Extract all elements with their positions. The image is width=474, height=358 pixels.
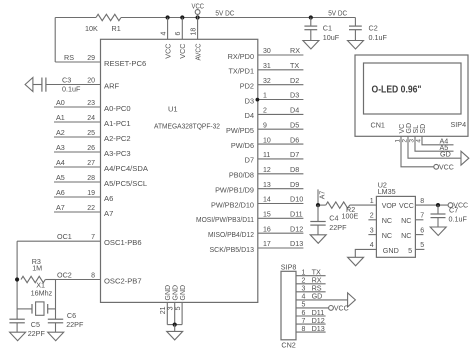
svg-text:3: 3 — [370, 227, 374, 234]
wire C3 to ground — [33, 84, 42, 86]
wire pin 17 net D13 — [258, 247, 304, 249]
svg-text:12: 12 — [263, 167, 271, 174]
wire pin 9 net D5 — [258, 128, 304, 130]
wire pin 28 A5/PC5/SCL — [54, 181, 101, 183]
wire pin 7 stub — [415, 219, 423, 221]
power VCC at OLED — [434, 164, 439, 169]
capacitor C7 — [431, 213, 446, 215]
wire rail to C2 — [354, 18, 356, 27]
svg-text:GD: GD — [440, 149, 451, 158]
svg-text:D6: D6 — [290, 135, 299, 144]
wire pin 7 net D12 — [296, 323, 326, 325]
svg-text:GND: GND — [165, 285, 172, 301]
svg-text:CN1: CN1 — [371, 120, 385, 129]
resistor R2 — [326, 202, 350, 208]
svg-text:16Mhz: 16Mhz — [31, 289, 53, 298]
svg-text:OC2: OC2 — [57, 270, 72, 279]
svg-text:RX: RX — [290, 46, 300, 55]
wire pin 3 net RS — [296, 291, 326, 293]
resistor R3 — [21, 276, 45, 282]
svg-text:VCC: VCC — [163, 44, 172, 59]
svg-text:ATMEGA328TQPF-32: ATMEGA328TQPF-32 — [154, 122, 220, 131]
svg-text:VCC: VCC — [399, 203, 414, 210]
svg-text:GND: GND — [180, 285, 187, 301]
svg-text:19: 19 — [87, 190, 95, 197]
svg-text:3: 3 — [168, 306, 175, 310]
svg-text:SCK/PB5/D13: SCK/PB5/D13 — [210, 245, 255, 254]
svg-text:O-LED 0.96": O-LED 0.96" — [372, 85, 422, 96]
svg-text:A1-PC1: A1-PC1 — [104, 119, 131, 128]
svg-text:LM35: LM35 — [378, 187, 396, 196]
svg-text:RX/PD0: RX/PD0 — [228, 52, 254, 61]
svg-text:D3: D3 — [290, 91, 299, 100]
svg-text:U1: U1 — [168, 105, 178, 114]
svg-text:D7: D7 — [245, 156, 254, 165]
wire A7 drop — [317, 189, 319, 205]
svg-text:4: 4 — [160, 32, 167, 36]
svg-text:A5/PC5/SCL: A5/PC5/SCL — [104, 179, 147, 188]
OLED screen inner box — [364, 63, 462, 114]
svg-text:10uF: 10uF — [323, 33, 340, 42]
ground (C2) — [348, 41, 364, 50]
svg-text:A3-PC3: A3-PC3 — [104, 149, 131, 158]
svg-text:16: 16 — [263, 226, 271, 233]
wire pin 4 to ground — [296, 299, 348, 301]
svg-text:CN2: CN2 — [281, 340, 295, 349]
wire pin 32 net D2 — [258, 84, 304, 86]
svg-text:7: 7 — [420, 213, 424, 220]
wire RESET pull-up vertical — [54, 18, 56, 63]
wire C6 to ground — [55, 323, 57, 332]
wire pin 13 net D9 — [258, 188, 304, 190]
svg-text:21: 21 — [160, 306, 167, 314]
svg-text:A6: A6 — [104, 194, 113, 203]
wire 5V DC rail — [121, 17, 355, 19]
wire GND pin 21 — [166, 302, 168, 324]
svg-text:5V DC: 5V DC — [215, 9, 234, 18]
svg-text:31: 31 — [263, 63, 271, 70]
svg-text:OSC2-PB7: OSC2-PB7 — [104, 276, 142, 285]
wire C7 to ground — [437, 218, 439, 227]
svg-text:D12: D12 — [290, 224, 303, 233]
svg-text:GND: GND — [173, 285, 180, 301]
svg-text:3: 3 — [302, 286, 306, 293]
wire OSC2 — [56, 279, 101, 281]
svg-text:9: 9 — [263, 122, 267, 129]
wire to crystal right — [48, 308, 56, 310]
wire pin 2 net D4 — [258, 113, 304, 115]
svg-text:17: 17 — [263, 241, 271, 248]
svg-text:22: 22 — [87, 205, 95, 212]
wire pin 3 stub — [368, 234, 376, 236]
svg-text:D3: D3 — [245, 96, 254, 105]
svg-text:A7: A7 — [104, 209, 113, 218]
wire pin 5 to VCC — [296, 307, 329, 309]
svg-text:2: 2 — [263, 108, 267, 115]
svg-text:TX: TX — [290, 61, 299, 70]
ground (right) OLED — [461, 151, 469, 165]
ground (C1) — [303, 41, 319, 50]
svg-text:1: 1 — [263, 93, 267, 100]
capacitor C4 — [310, 221, 325, 223]
svg-text:VCC: VCC — [334, 305, 349, 312]
svg-text:A0: A0 — [56, 98, 65, 107]
ground (C7) — [430, 227, 446, 236]
wire SD to A4 — [422, 136, 454, 145]
svg-text:8: 8 — [91, 272, 95, 279]
svg-text:2: 2 — [302, 278, 306, 285]
ground (right) CN2 — [348, 293, 356, 307]
svg-text:NC: NC — [401, 231, 411, 240]
wire pin 29 RESET-PC6 — [55, 61, 100, 63]
capacitor C6 — [48, 318, 63, 320]
svg-text:A2: A2 — [56, 128, 65, 137]
wire VC to VCC — [401, 136, 434, 167]
svg-text:0.1uF: 0.1uF — [449, 214, 468, 223]
svg-text:11: 11 — [263, 152, 270, 159]
svg-text:29: 29 — [87, 55, 95, 62]
svg-text:A4: A4 — [56, 158, 65, 167]
wire C4 to ground — [317, 225, 319, 235]
svg-text:5: 5 — [420, 242, 424, 249]
svg-text:22PF: 22PF — [329, 223, 347, 232]
wire pin 19 A6 — [54, 196, 101, 198]
svg-text:GD: GD — [406, 123, 413, 134]
svg-text:D13: D13 — [290, 239, 303, 248]
svg-text:GND: GND — [383, 246, 399, 255]
svg-text:C3: C3 — [62, 75, 71, 84]
svg-text:D13: D13 — [312, 324, 325, 333]
svg-text:C5: C5 — [31, 320, 40, 329]
svg-text:AVCC: AVCC — [193, 44, 202, 61]
svg-text:32: 32 — [263, 78, 271, 85]
junction pin4 rail — [166, 15, 170, 19]
wire C2 to ground — [354, 30, 356, 41]
junction pin18 rail — [196, 15, 200, 19]
wire pin 4 — [167, 18, 169, 40]
svg-text:7: 7 — [91, 234, 95, 241]
wire junction to R2 — [318, 204, 326, 206]
svg-text:A4/PC4/SDA: A4/PC4/SDA — [104, 164, 149, 173]
svg-text:SD: SD — [420, 124, 427, 134]
wire pin 31 net TX — [258, 69, 304, 71]
svg-text:D2: D2 — [290, 76, 299, 85]
svg-text:5V DC: 5V DC — [328, 8, 347, 17]
svg-text:0.1uF: 0.1uF — [62, 84, 81, 93]
svg-text:GD: GD — [312, 292, 323, 301]
ground (C4) — [310, 235, 326, 244]
svg-text:4: 4 — [302, 294, 306, 301]
svg-text:23: 23 — [87, 100, 95, 107]
wire OSC1 vertical — [16, 241, 18, 319]
resistor R1 — [96, 14, 121, 20]
svg-text:NC: NC — [382, 231, 392, 240]
svg-text:OSC1-PB6: OSC1-PB6 — [104, 238, 142, 247]
svg-text:1: 1 — [370, 198, 374, 205]
svg-text:A7: A7 — [319, 191, 326, 200]
wire pin 16 net D12 — [258, 232, 304, 234]
wire pin 5 stub — [415, 248, 424, 250]
wire rail to R1 — [55, 17, 96, 19]
wire pin 6 net D11 — [296, 315, 326, 317]
wire pin 11 net D7 — [258, 158, 304, 160]
connector CN1 OLED outer box — [355, 55, 468, 136]
svg-text:SL: SL — [413, 125, 420, 134]
svg-text:28: 28 — [87, 175, 95, 182]
svg-text:6: 6 — [302, 310, 306, 317]
wire to C4 — [317, 205, 319, 221]
svg-text:RS: RS — [64, 53, 74, 62]
wire pin 1 net TX — [296, 275, 326, 277]
wire pin 4 GND — [355, 249, 376, 257]
wire GND pin 3 — [174, 302, 176, 324]
svg-text:VOP: VOP — [382, 203, 397, 210]
svg-text:15: 15 — [263, 212, 271, 219]
wire to ground — [174, 325, 176, 332]
svg-text:PD2: PD2 — [240, 82, 254, 91]
wire pin 2 net RX — [296, 283, 326, 285]
svg-text:10K: 10K — [85, 24, 98, 33]
wire pin 14 net D10 — [258, 203, 304, 205]
svg-text:ARF: ARF — [104, 81, 120, 90]
capacitor C2 — [349, 25, 362, 27]
svg-text:D4: D4 — [290, 106, 299, 115]
wire pin 23 A0-PC0 — [54, 106, 101, 108]
wire OSC1 — [17, 240, 100, 242]
wire C1 to ground — [310, 30, 312, 41]
svg-text:20: 20 — [87, 77, 95, 84]
svg-text:14: 14 — [263, 197, 271, 204]
svg-text:VCC: VCC — [439, 164, 454, 171]
wire rail to C1 — [310, 18, 312, 27]
svg-text:30: 30 — [263, 48, 271, 55]
wire pin 24 A1-PC1 — [54, 121, 101, 123]
svg-text:D11: D11 — [290, 210, 303, 219]
ground (C6) — [48, 332, 64, 341]
svg-text:OC1: OC1 — [57, 232, 72, 241]
svg-text:C7: C7 — [449, 206, 458, 215]
wire pin 22 A7 — [54, 211, 101, 213]
capacitor C1 — [304, 25, 317, 27]
power VCC at CN2 — [329, 306, 334, 311]
junction R2/C4 — [316, 203, 320, 207]
wire to C7 — [437, 205, 439, 214]
wire pin 18 — [197, 18, 199, 40]
svg-text:MOSI/PW/PB3/D11: MOSI/PW/PB3/D11 — [196, 215, 254, 224]
wire VCC stub — [197, 14, 199, 17]
svg-text:VC: VC — [399, 124, 406, 134]
svg-text:4: 4 — [370, 242, 374, 249]
wire to crystal left — [17, 308, 32, 310]
svg-text:D7: D7 — [290, 150, 299, 159]
svg-text:PW/PB2/D10: PW/PB2/D10 — [211, 200, 254, 209]
wire pin 25 A2-PC2 — [54, 136, 101, 138]
svg-text:D5: D5 — [290, 120, 299, 129]
wire pin 30 net RX — [258, 54, 304, 56]
junction pin1 D3 — [256, 98, 260, 102]
svg-text:PB0/D8: PB0/D8 — [229, 171, 254, 180]
wire pin 6 stub — [415, 234, 423, 236]
svg-text:A2-PC2: A2-PC2 — [104, 134, 131, 143]
svg-text:A7: A7 — [56, 203, 65, 212]
svg-text:22PF: 22PF — [28, 329, 46, 338]
svg-text:6: 6 — [175, 32, 182, 36]
svg-text:A0-PC0: A0-PC0 — [104, 104, 131, 113]
wire pin 10 net D6 — [258, 143, 304, 145]
svg-text:25: 25 — [87, 130, 95, 137]
svg-text:VCC: VCC — [192, 4, 205, 11]
capacitor C5 — [9, 318, 24, 320]
junction C1 rail — [309, 15, 313, 19]
wire R2 to pin 1 — [350, 204, 377, 206]
svg-text:5: 5 — [408, 246, 412, 255]
svg-text:0.1uF: 0.1uF — [369, 33, 388, 42]
svg-text:D4: D4 — [245, 111, 254, 120]
svg-text:18: 18 — [190, 28, 197, 36]
wire pin 1 net D3 — [258, 99, 304, 101]
svg-text:8: 8 — [302, 326, 306, 333]
svg-text:SIP4: SIP4 — [451, 120, 467, 129]
svg-text:RESET-PC6: RESET-PC6 — [104, 59, 146, 68]
svg-text:C4: C4 — [329, 214, 338, 223]
wire pin 26 A3-PC3 — [54, 151, 101, 153]
power VCC symbol — [195, 10, 200, 15]
svg-text:C2: C2 — [369, 24, 378, 33]
svg-text:VCC: VCC — [178, 44, 187, 59]
wire pin 15 net D11 — [258, 217, 304, 219]
svg-text:NC: NC — [382, 216, 392, 225]
svg-text:6: 6 — [420, 227, 424, 234]
junction C7 — [436, 203, 440, 207]
wire pin 6 — [181, 18, 183, 40]
wire pin 2 stub — [368, 219, 376, 221]
svg-text:22PF: 22PF — [66, 320, 84, 329]
svg-text:TX/PD1: TX/PD1 — [228, 67, 254, 76]
wire GND pin 5 — [181, 302, 183, 324]
wire pin 27 A4/PC4/SDA — [54, 166, 101, 168]
wire OSC2 vertical — [55, 280, 57, 320]
svg-text:A3: A3 — [56, 143, 65, 152]
svg-text:A6: A6 — [56, 188, 65, 197]
svg-text:1: 1 — [302, 270, 306, 277]
junction GND — [173, 323, 177, 327]
svg-text:A5: A5 — [56, 173, 65, 182]
svg-text:PW/D6: PW/D6 — [231, 141, 254, 150]
svg-text:R1: R1 — [112, 24, 121, 33]
svg-text:PW/PB1/D9: PW/PB1/D9 — [215, 186, 254, 195]
power VCC at LM35 — [448, 203, 453, 208]
svg-text:2: 2 — [370, 213, 374, 220]
ground (LM35) — [348, 257, 364, 266]
svg-text:D8: D8 — [290, 165, 299, 174]
svg-text:C1: C1 — [323, 24, 332, 33]
svg-text:5: 5 — [302, 302, 306, 309]
ground (C5) — [10, 332, 26, 341]
svg-text:D9: D9 — [290, 180, 299, 189]
crystal X1 — [31, 304, 33, 314]
op-amp U1 ATMEGA328 box — [101, 39, 258, 302]
svg-text:26: 26 — [87, 145, 95, 152]
svg-text:A1: A1 — [56, 113, 65, 122]
connector CN2 SIP8 box — [281, 271, 296, 340]
wire ARF to C3 — [46, 84, 101, 86]
svg-text:5: 5 — [175, 306, 182, 310]
svg-text:C6: C6 — [67, 311, 76, 320]
capacitor C3 — [41, 78, 43, 92]
svg-text:SIP8: SIP8 — [281, 262, 297, 271]
ground (IC) — [167, 331, 183, 340]
svg-text:PW/PD5: PW/PD5 — [226, 126, 254, 135]
junction R3 left — [15, 277, 19, 281]
svg-text:24: 24 — [87, 115, 95, 122]
junction pin6 rail — [180, 15, 184, 19]
wire GD to ground — [408, 136, 461, 158]
svg-text:MISO/PB4/D12: MISO/PB4/D12 — [208, 230, 254, 239]
svg-text:7: 7 — [302, 318, 306, 325]
svg-text:100E: 100E — [342, 212, 359, 221]
svg-text:1M: 1M — [32, 264, 42, 273]
wire pin 8 to VCC — [415, 204, 448, 206]
wire GND join — [167, 324, 182, 326]
svg-text:D10: D10 — [290, 195, 303, 204]
svg-text:13: 13 — [263, 182, 271, 189]
wire R3 to OSC2 — [45, 279, 55, 281]
svg-text:8: 8 — [420, 198, 424, 205]
svg-text:27: 27 — [87, 160, 95, 167]
wire SL to A5 — [415, 136, 454, 151]
svg-text:10: 10 — [263, 137, 271, 144]
wire pin 12 net D8 — [258, 173, 304, 175]
ground (left) at C3 — [25, 78, 33, 92]
transistor U2 LM35 box — [376, 196, 415, 257]
wire C5 to ground — [16, 323, 18, 332]
wire pin 8 net D13 — [296, 331, 326, 333]
svg-text:NC: NC — [401, 216, 411, 225]
